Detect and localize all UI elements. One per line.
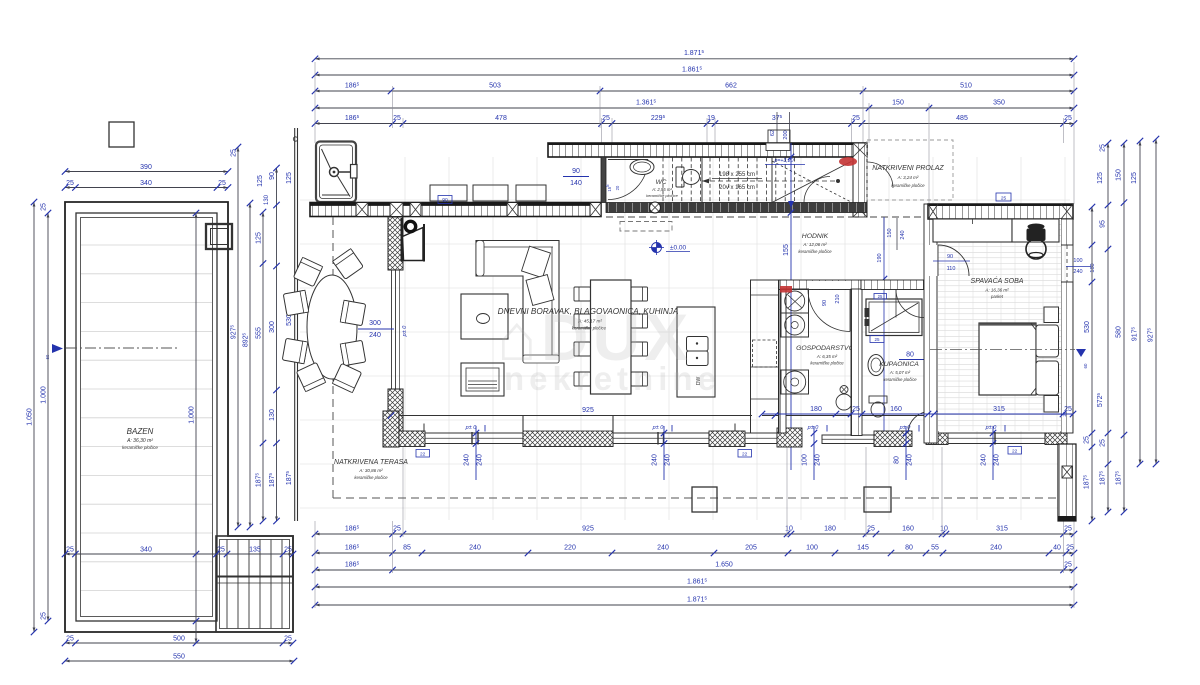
wall notch [766, 143, 790, 151]
svg-text:130: 130 [264, 194, 270, 205]
svg-text:NATKRIVENA TERASA: NATKRIVENA TERASA [334, 459, 408, 466]
dim pool 1.050 [27, 199, 38, 635]
column circle [650, 202, 661, 213]
svg-text:80: 80 [894, 456, 901, 464]
wall kupaonica west [851, 289, 862, 436]
svg-text:85: 85 [403, 545, 411, 552]
dim hodnik 190 [883, 217, 885, 436]
svg-text:240: 240 [981, 454, 988, 466]
washer 2 [781, 313, 809, 337]
pool stairs [216, 536, 293, 632]
svg-text:100: 100 [802, 454, 809, 466]
svg-text:240: 240 [1073, 269, 1082, 275]
gospodarstvo door gap [808, 281, 849, 289]
terrace column 1 [692, 487, 717, 512]
svg-text:315: 315 [993, 406, 1005, 413]
dim row 1.871,5 [312, 49, 1077, 62]
svg-text:25: 25 [1100, 439, 1107, 447]
svg-text:A: 16,36 m²: A: 16,36 m² [984, 288, 1009, 293]
south pier mid [523, 416, 613, 447]
svg-text:555: 555 [256, 327, 263, 339]
pier bedroom NE [1061, 204, 1073, 219]
svg-text:22: 22 [1012, 449, 1018, 455]
window living west [391, 270, 393, 389]
red mark stove [780, 286, 792, 293]
svg-text:240: 240 [815, 454, 822, 466]
svg-text:p± 0: p± 0 [807, 425, 820, 431]
svg-text:keramičke pločice: keramičke pločice [798, 249, 832, 254]
svg-text:220: 220 [564, 545, 576, 552]
wall top circle [293, 137, 297, 141]
wall living north band [310, 203, 601, 217]
svg-text:580: 580 [1116, 326, 1123, 338]
svg-text:25: 25 [874, 337, 880, 342]
svg-text:315: 315 [996, 526, 1008, 533]
dim col right 917 [1130, 138, 1143, 467]
bed pillow top [1036, 325, 1059, 357]
svg-text:95: 95 [1100, 220, 1107, 228]
office chair [1028, 224, 1045, 230]
wall wc west [601, 157, 606, 203]
svg-text:925: 925 [582, 526, 594, 533]
svg-text:A: 6,35 m²: A: 6,35 m² [816, 354, 838, 359]
svg-text:160: 160 [890, 406, 902, 413]
coffee table [461, 294, 508, 339]
svg-text:WC: WC [656, 179, 667, 186]
svg-text:A: 36,30 m²: A: 36,30 m² [126, 438, 153, 444]
dim door vertical B [663, 426, 665, 480]
svg-text:205: 205 [745, 545, 757, 552]
svg-text:nekretnine: nekretnine [504, 360, 721, 397]
south pier bath [874, 431, 912, 447]
svg-text:25: 25 [66, 547, 74, 554]
svg-text:300: 300 [369, 320, 381, 327]
svg-text:keramičke pločice: keramičke pločice [891, 183, 925, 188]
strip south dashed [606, 216, 928, 218]
svg-text:±0.00: ±0.00 [670, 245, 687, 252]
terrace west wall [294, 128, 296, 521]
prolaz door arc [867, 162, 893, 188]
interior south face line [399, 415, 752, 417]
svg-text:140: 140 [570, 180, 582, 187]
wc washbasin [630, 160, 654, 175]
svg-text:90: 90 [572, 168, 580, 175]
svg-text:135: 135 [249, 547, 261, 554]
south pier left [399, 431, 425, 447]
gospodarstvo wc [836, 394, 852, 410]
svg-text:240: 240 [657, 545, 669, 552]
extension lines bottom [314, 521, 316, 608]
wall gospodarstvo west [779, 280, 786, 433]
svg-text:530: 530 [1084, 321, 1091, 333]
dim row 180-25-160-315-25 [762, 413, 1073, 415]
bench north 1 [430, 185, 467, 201]
svg-text:A: 3,24 m²: A: 3,24 m² [897, 175, 919, 180]
wall pier A3 [507, 203, 518, 217]
wall strip east [853, 143, 867, 217]
svg-text:GOSPODARSTVO: GOSPODARSTVO [796, 345, 854, 352]
svg-text:90: 90 [822, 300, 828, 306]
svg-text:100: 100 [1073, 258, 1082, 264]
svg-text:550: 550 [173, 654, 185, 661]
svg-text:25: 25 [231, 149, 238, 157]
svg-text:keramičke pločice: keramičke pločice [646, 193, 679, 198]
svg-text:125: 125 [286, 172, 293, 184]
svg-text:155: 155 [783, 244, 790, 256]
svg-text:390: 390 [140, 164, 152, 171]
svg-text:210: 210 [835, 294, 841, 303]
dashed overhead box [620, 222, 672, 232]
dim pool 25-340-25-135-25 [62, 547, 296, 558]
bath washbasin [868, 355, 884, 376]
svg-text:240: 240 [900, 230, 906, 239]
wall kupaonica north [861, 280, 928, 290]
svg-text:BAZEN: BAZEN [127, 427, 154, 436]
svg-text:p± 0: p± 0 [402, 325, 408, 338]
pool outer wall outline [65, 202, 293, 632]
svg-text:25: 25 [1100, 144, 1107, 152]
svg-text:25: 25 [217, 547, 225, 554]
dim col right 1 [1082, 204, 1095, 524]
staircase [663, 158, 852, 203]
bed pillow bottom [1036, 361, 1059, 395]
svg-text:125: 125 [257, 175, 264, 187]
boiler circle [781, 370, 809, 394]
svg-text:10: 10 [940, 526, 948, 533]
wall strip north [548, 143, 867, 157]
pool floor tile lines [81, 245, 212, 591]
boxed 25 bath [870, 336, 884, 343]
svg-text:190: 190 [877, 253, 883, 262]
svg-text:25: 25 [41, 612, 48, 620]
svg-text:25: 25 [1001, 196, 1007, 202]
svg-text:50: 50 [45, 354, 50, 359]
south window 4 [822, 435, 874, 444]
dim row bottom 1.650 [312, 560, 1077, 573]
svg-text:25: 25 [41, 203, 48, 211]
terrace dashed boundary [332, 217, 334, 498]
svg-text:25: 25 [602, 115, 610, 122]
dim col right 580 [1114, 140, 1127, 515]
pool skimmer box [206, 224, 232, 249]
svg-text:150: 150 [892, 100, 904, 107]
svg-text:p± 0: p± 0 [899, 425, 912, 431]
svg-text:25: 25 [1084, 436, 1091, 444]
dim pool 390 [62, 164, 231, 175]
nightstand bottom [1044, 396, 1059, 413]
washer 1 [781, 289, 809, 313]
dim col 300-130 [268, 165, 280, 524]
boxed 25 bath top [874, 294, 887, 300]
svg-text:340: 340 [140, 180, 152, 187]
svg-text:485: 485 [956, 115, 968, 122]
dim door vertical C [813, 426, 815, 480]
svg-text:110: 110 [947, 266, 956, 272]
svg-text:80: 80 [905, 545, 913, 552]
dim pool 25-340-25 [62, 180, 231, 191]
svg-text:80: 80 [906, 352, 914, 359]
svg-text:25: 25 [1066, 545, 1074, 552]
dim col 555 [254, 209, 266, 524]
svg-text:25: 25 [852, 115, 860, 122]
gospodarstvo sink small [840, 386, 848, 394]
svg-text:25: 25 [218, 180, 226, 187]
svg-text:1.650: 1.650 [715, 562, 733, 569]
bedroom centerline [930, 349, 1075, 351]
background grid [300, 157, 1070, 520]
dim col right 927 [1146, 136, 1159, 467]
fireplace niche wall [401, 218, 403, 262]
bed [979, 323, 1036, 395]
svg-text:198 x 255 cm: 198 x 255 cm [719, 172, 755, 178]
svg-text:340: 340 [140, 547, 152, 554]
bath south door arc [908, 412, 930, 434]
svg-text:1.8615: 1.8615 [687, 577, 708, 585]
garden wall east [1058, 444, 1076, 521]
svg-text:25: 25 [284, 636, 292, 643]
svg-text:240: 240 [652, 454, 659, 466]
south corner SE [1045, 433, 1067, 445]
ottoman [461, 363, 504, 396]
svg-text:25: 25 [284, 547, 292, 554]
svg-text:NATKRIVENI PROLAZ: NATKRIVENI PROLAZ [872, 165, 944, 172]
dining table [574, 280, 648, 394]
svg-text:200: 200 [783, 130, 789, 139]
dim pool 550 [62, 654, 297, 665]
boxed 22 3 [1008, 447, 1022, 455]
level mark 0.00 [649, 240, 690, 255]
wall bedroom west [924, 204, 938, 443]
svg-text:500: 500 [173, 636, 185, 643]
wall living west lower [388, 389, 403, 431]
bench north 3 [516, 185, 546, 201]
svg-text:25: 25 [1064, 562, 1072, 569]
pool basin outer rim [76, 213, 217, 621]
dim door vertical A [475, 426, 477, 480]
svg-text:19: 19 [707, 115, 715, 122]
svg-text:90: 90 [442, 198, 448, 204]
bedroom door arc [925, 245, 938, 276]
outdoor shower tray [316, 142, 356, 203]
svg-text:25: 25 [66, 180, 74, 187]
dim row bottom chain1 [312, 524, 1077, 537]
svg-text:22: 22 [420, 452, 426, 458]
dim door vertical D [905, 426, 907, 480]
bath dark block [926, 375, 937, 397]
svg-text:keramičke pločice: keramičke pločice [122, 445, 158, 450]
south window 3 [745, 433, 777, 444]
svg-text:925: 925 [582, 407, 594, 414]
svg-text:530: 530 [286, 314, 293, 326]
T ticks south wall [423, 424, 425, 432]
svg-text:A: 30,86 m²: A: 30,86 m² [358, 468, 383, 473]
svg-text:240: 240 [477, 454, 484, 466]
svg-text:KUPAONICA: KUPAONICA [879, 361, 919, 368]
svg-text:25: 25 [393, 526, 401, 533]
wall bedroom east [1061, 219, 1073, 245]
svg-text:1.000: 1.000 [189, 406, 196, 424]
svg-text:478: 478 [495, 115, 507, 122]
wall pier A0 [390, 203, 403, 217]
bedroom east window [1061, 245, 1073, 282]
svg-text:240: 240 [369, 332, 381, 339]
dim row bottom 1.871,5 [312, 595, 1077, 608]
svg-text:240: 240 [464, 454, 471, 466]
dim row 1.361,5-150-350 [312, 98, 1077, 111]
extension lines top [314, 62, 316, 143]
svg-text:1.050: 1.050 [27, 408, 34, 426]
bench north 2 [473, 185, 508, 201]
svg-text:240: 240 [469, 545, 481, 552]
svg-text:1.3615: 1.3615 [636, 98, 657, 106]
svg-text:25: 25 [66, 636, 74, 643]
dim vertical 155 [790, 143, 792, 470]
svg-text:503: 503 [489, 83, 501, 90]
svg-text:100: 100 [806, 545, 818, 552]
svg-text:p± 0: p± 0 [985, 425, 998, 431]
svg-text:A: 12,06 m²: A: 12,06 m² [802, 242, 827, 247]
pool inflow arrow [52, 344, 63, 353]
svg-text:25: 25 [867, 526, 875, 533]
dim col right 530-572 [1098, 140, 1111, 515]
svg-text:25: 25 [878, 294, 883, 299]
svg-text:62: 62 [770, 130, 776, 136]
svg-text:150: 150 [887, 228, 893, 237]
svg-text:25: 25 [852, 406, 860, 413]
dim notch 62-200 [776, 112, 778, 156]
terrace column 2 [864, 487, 891, 512]
wall pier A2 [410, 203, 421, 217]
dim pool 25-500-25 [62, 636, 296, 647]
svg-text:150: 150 [1116, 169, 1123, 181]
kitchen counter west [751, 280, 779, 433]
nightstand top [1044, 307, 1059, 323]
south pier bath2 [926, 433, 948, 445]
bath shower tub [866, 299, 922, 336]
pier bedroom NW [928, 204, 938, 219]
wall living west upper [388, 217, 403, 270]
svg-text:125: 125 [1097, 172, 1104, 184]
svg-text:p± 0: p± 0 [652, 425, 665, 431]
wall bedroom north [928, 204, 1073, 219]
svg-text:20: 20 [615, 185, 620, 190]
site square top left [109, 122, 134, 147]
dim door vertical E [992, 426, 994, 480]
svg-text:25: 25 [1064, 526, 1072, 533]
dim row bottom chain2 [312, 543, 1077, 556]
svg-text:40: 40 [1053, 545, 1061, 552]
terrace round table [282, 249, 365, 393]
wall gospodarstvo north [779, 280, 861, 290]
svg-text:HODNIK: HODNIK [802, 233, 829, 240]
dim pool 1.000 inner [189, 210, 200, 646]
wc door arc [608, 160, 648, 200]
svg-text:25: 25 [1064, 406, 1072, 413]
south pier right [709, 431, 745, 447]
prolaz dashed outline [867, 140, 953, 200]
south window 1 [425, 433, 523, 444]
boxed 25 bedroom [996, 193, 1011, 201]
south window bedroom [948, 433, 1045, 444]
svg-text:180: 180 [810, 406, 822, 413]
dim row 186,5-503-662-510 [312, 81, 1077, 94]
closet bedroom [933, 219, 1012, 242]
svg-text:510: 510 [960, 83, 972, 90]
svg-text:SPAVAĆA SOBA: SPAVAĆA SOBA [971, 276, 1024, 285]
pier strip east corner [853, 143, 867, 157]
level triangle east [1076, 349, 1086, 357]
svg-text:A: 2,95 m²: A: 2,95 m² [651, 187, 672, 192]
svg-text:1.8715: 1.8715 [687, 595, 708, 603]
svg-text:1.8715: 1.8715 [684, 49, 705, 57]
svg-text:25: 25 [393, 115, 401, 122]
svg-text:22: 22 [742, 452, 748, 458]
south window 2 [613, 433, 709, 444]
svg-text:90: 90 [269, 172, 276, 180]
svg-text:130: 130 [269, 409, 276, 421]
svg-text:125: 125 [256, 232, 263, 244]
pool basin inner rim [81, 218, 213, 617]
svg-text:55: 55 [931, 545, 939, 552]
svg-text:keramičke pločice: keramičke pločice [354, 475, 388, 480]
wall pier A [356, 203, 368, 217]
svg-text:145: 145 [857, 545, 869, 552]
svg-text:300: 300 [269, 321, 276, 333]
wall pier B [590, 203, 601, 217]
sofa [476, 241, 559, 362]
desk bedroom [1012, 219, 1059, 242]
corner pier SW [383, 411, 399, 447]
bedroom parquet floor [938, 219, 1061, 431]
fireplace [403, 228, 424, 261]
wall strip south dark [606, 203, 867, 213]
svg-text:240: 240 [990, 545, 1002, 552]
boxed 22 2 [738, 450, 752, 458]
svg-text:90: 90 [947, 254, 953, 260]
wc toilet [676, 167, 684, 187]
watermark [497, 300, 721, 397]
red mark radiator [839, 157, 857, 166]
bath wc [869, 396, 887, 403]
svg-text:keramičke pločice: keramičke pločice [883, 377, 917, 382]
svg-text:180: 180 [824, 526, 836, 533]
svg-text:125: 125 [1131, 172, 1138, 184]
svg-text:keramičke pločice: keramičke pločice [810, 361, 844, 366]
svg-text:25: 25 [1064, 115, 1072, 122]
label 90 boxed [438, 196, 452, 204]
svg-text:662: 662 [725, 83, 737, 90]
svg-text:350: 350 [993, 100, 1005, 107]
pool centre dash-dot line [66, 347, 178, 349]
dim col 927.5 [229, 144, 241, 530]
svg-text:1.8615: 1.8615 [682, 65, 703, 73]
svg-text:1.000: 1.000 [41, 386, 48, 404]
boxed 22 1 [416, 450, 430, 458]
svg-text:160: 160 [902, 526, 914, 533]
dim row bottom 1.861,5 [312, 577, 1077, 590]
dim pool 1.000 left [41, 203, 52, 624]
dim row detail top [312, 114, 1077, 127]
dim col 892.5 [241, 200, 253, 530]
svg-text:240: 240 [994, 454, 1001, 466]
svg-text:240: 240 [665, 454, 672, 466]
kitchen island [677, 307, 715, 397]
dim row 1.861,5 [312, 65, 1077, 78]
svg-text:10: 10 [785, 526, 793, 533]
svg-text:A: 5,07 m²: A: 5,07 m² [889, 370, 911, 375]
svg-text:240: 240 [907, 454, 914, 466]
svg-text:p± 0: p± 0 [465, 425, 478, 431]
